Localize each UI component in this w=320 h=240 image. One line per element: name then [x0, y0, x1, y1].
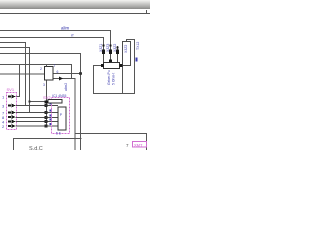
wire bottom-left box: [14, 139, 82, 151]
pin 4: [2, 120, 58, 125]
wire vertical to pin row 1: [16, 65, 20, 97]
junction dot A: [79, 72, 82, 75]
svg-text:S.d.C: S.d.C: [29, 146, 43, 150]
wire regulator right down: [122, 66, 124, 94]
svg-text:IC1 4N35: IC1 4N35: [52, 94, 66, 98]
svg-text:5 Ohm-t: 5 Ohm-t: [112, 73, 116, 85]
pin 7: [2, 111, 58, 116]
wire W6 long bus: [0, 54, 81, 151]
svg-text:XMT: XMT: [134, 143, 143, 148]
wire regulator left loop: [94, 40, 135, 94]
svg-text:7: 7: [54, 64, 56, 68]
wire bus W4 to pin row 2: [0, 43, 26, 106]
sheet tag pink box: [133, 142, 147, 148]
wire bus W5 to pin row 3: [0, 48, 30, 113]
comp2 bottom blob: [109, 60, 112, 63]
transistor T1 box: [45, 67, 54, 81]
wire resistor feed: [30, 101, 45, 103]
pin 1: [2, 95, 16, 100]
wire transistor output: [53, 79, 75, 151]
frame tick right: [146, 10, 148, 14]
wire net alim: [0, 31, 111, 63]
svg-text:X3Z2: X3Z2: [113, 44, 117, 52]
connector SV1 pink box: [7, 93, 17, 130]
pin 3: [2, 104, 58, 109]
wire W9 to transistor: [0, 73, 45, 75]
svg-text:Geber-Pu: Geber-Pu: [107, 70, 111, 85]
svg-text:6: 6: [57, 70, 59, 74]
wire bottom title line: [75, 134, 147, 151]
relay K1 box: [123, 42, 131, 66]
pin 8: [2, 115, 58, 120]
svg-text:5 6: 5 6: [56, 132, 61, 136]
pin stub top: [46, 65, 48, 67]
capacitor C2 vertical: [109, 44, 112, 62]
svg-text:2: 2: [40, 67, 42, 71]
wire transistor bottom junction vertical: [46, 80, 48, 126]
pin right diamond: [120, 64, 123, 67]
svg-text:alim2: alim2: [64, 83, 68, 91]
IC U3 box: [58, 107, 66, 130]
pin left diamond: [101, 64, 104, 67]
wire net rf: [0, 38, 104, 63]
net tick: [136, 58, 138, 62]
resistor R1 horizontal: [48, 100, 62, 104]
connector pins group: [2, 95, 58, 130]
svg-text:X3Z1: X3Z1: [99, 44, 103, 52]
junction dot F: [28, 100, 30, 102]
svg-text:3: 3: [43, 83, 45, 87]
regulator U2 box: [104, 63, 120, 69]
canvas background: [0, 0, 150, 150]
wire W8 bus: [0, 65, 72, 79]
module SV2 pink box: [52, 98, 70, 134]
wire transistor pin6 to bus: [53, 73, 81, 75]
resistor pin blob: [45, 101, 49, 104]
wire net N1 full-width: [0, 13, 150, 15]
module pin numbers blue: [50, 103, 52, 126]
svg-text:X3Z3: X3Z3: [106, 44, 110, 52]
capacitor C3 vertical: [116, 46, 119, 62]
capacitor C1 vertical: [102, 44, 105, 62]
svg-text:SV1: SV1: [7, 87, 15, 92]
svg-text:TX12: TX12: [136, 42, 140, 50]
pin 2: [2, 124, 58, 129]
svg-text:X3Z2: X3Z2: [124, 45, 128, 53]
pin arrow output: [59, 77, 63, 81]
svg-text:alim: alim: [61, 26, 70, 31]
module pin circles: [45, 104, 47, 127]
